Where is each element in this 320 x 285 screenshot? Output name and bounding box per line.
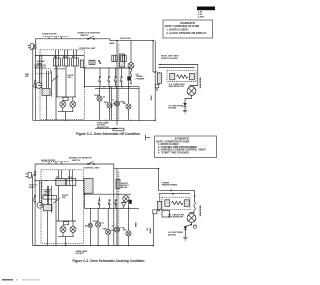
- stirrer motor SM circle: [126, 81, 131, 121]
- relay stub wires C-2: [58, 170, 72, 179]
- svg-text:FM: FM: [111, 230, 114, 232]
- turntable motor TTM circle: [114, 87, 119, 121]
- HV transformer T4 winding: [157, 202, 161, 210]
- control unit box C-2: [41, 170, 83, 244]
- svg-text:H.V.TR: H.V.TR: [150, 96, 152, 101]
- node s3: [115, 208, 116, 209]
- svg-text:FAN MOTOR: FAN MOTOR: [97, 126, 110, 129]
- connector wires C-2: [40, 186, 48, 246]
- control unit box: [40, 50, 84, 120]
- box above interlocks C-2: [63, 222, 68, 225]
- footer mark light: [22, 279, 40, 282]
- node d3: [116, 245, 117, 246]
- noise filter NF1 box: [43, 36, 70, 39]
- svg-text:SW.: SW.: [62, 197, 66, 199]
- HV capacitor element 2 C-2: [184, 200, 189, 207]
- svg-text:LAMP: LAMP: [109, 42, 115, 45]
- svg-text:OVEN: OVEN: [93, 221, 99, 223]
- outer loop left wire C-2: [32, 176, 34, 246]
- node r2: [109, 86, 110, 87]
- node at top right junction: [153, 40, 155, 42]
- svg-text:CONTROL UNIT: CONTROL UNIT: [79, 48, 96, 50]
- resistor R2 zigzag: [172, 201, 183, 205]
- svg-text:3-PRL: 3-PRL: [198, 17, 205, 19]
- diode wiring C-2: [185, 222, 191, 226]
- switch S3 diagonal: [52, 76, 58, 81]
- power transformer PT hatched: [84, 179, 93, 194]
- fan winding W1: [128, 41, 134, 85]
- svg-text:CONTROL UNIT: CONTROL UNIT: [83, 167, 100, 169]
- node r3: [115, 86, 116, 87]
- HV secondary wire upper: [159, 64, 198, 66]
- contact K4: [120, 68, 122, 87]
- control unit inner verticals: [40, 56, 52, 97]
- arrow down C-2: [194, 196, 196, 198]
- node b1: [105, 120, 106, 121]
- big box left vertical C-2: [116, 169, 118, 246]
- svg-text:NOISE FILTER: NOISE FILTER: [42, 34, 57, 36]
- T4 filament winding: [153, 210, 157, 214]
- svg-text:TTM: TTM: [120, 228, 124, 230]
- diode D2: [184, 226, 187, 237]
- node T1 bottom: [156, 89, 157, 90]
- latch switch block a: [112, 55, 118, 61]
- bus y88.4: [95, 87, 139, 89]
- HV capacitor element 1: [170, 73, 175, 79]
- vertical wire x56 C-2: [55, 199, 57, 246]
- svg-text:FORMER: FORMER: [136, 78, 145, 80]
- magnetron V1: [187, 86, 196, 96]
- magnetron V2: [187, 212, 196, 222]
- svg-text:FM: FM: [113, 104, 116, 106]
- svg-text:AND RESISTOR: AND RESISTOR: [169, 85, 185, 88]
- svg-text:AND RESISTOR: AND RESISTOR: [168, 216, 184, 219]
- svg-text:TT: TT: [112, 100, 115, 102]
- T1 lead joints: [157, 72, 159, 90]
- inner vertical C-2: [113, 169, 115, 246]
- svg-text:FAN: FAN: [104, 101, 109, 104]
- triac Q1: [122, 201, 127, 209]
- relay RY3: [72, 58, 79, 66]
- T4 winding wires down: [159, 194, 161, 202]
- left bus wire: [34, 39, 36, 121]
- vertical riser: [138, 87, 140, 121]
- junction block: [127, 76, 131, 80]
- node d4: [128, 245, 129, 246]
- node s2: [109, 208, 110, 209]
- relay drop wires C-2: [58, 186, 72, 221]
- node d1: [65, 245, 66, 246]
- relay stub wires: [56, 50, 77, 58]
- coil L1 circle: [36, 82, 42, 88]
- leader tick: [146, 135, 151, 141]
- svg-text:TT: TT: [112, 226, 115, 228]
- test point circle: [193, 225, 196, 228]
- control unit inner verticals C-2: [40, 181, 52, 213]
- svg-text:SWITCH: SWITCH: [80, 35, 89, 37]
- HV transformer T1 winding: [157, 73, 161, 83]
- node d2: [97, 245, 98, 246]
- damper motor circle C-2: [88, 208, 92, 245]
- big box left vertical wire: [116, 41, 118, 126]
- interlock wiring C-2: [56, 221, 76, 246]
- svg-text:TRANSFORMER: TRANSFORMER: [162, 184, 178, 187]
- HV secondary wire lower: [159, 67, 195, 69]
- node s5: [128, 208, 129, 209]
- footer mark mid: [16, 279, 18, 282]
- ground G2: [183, 237, 187, 240]
- wire to control unit: [35, 55, 84, 57]
- svg-text:OL: OL: [101, 223, 105, 225]
- arrow on wire: [159, 64, 161, 66]
- diode D1 wiring: [185, 95, 192, 103]
- svg-text:SCHEMATIC: SCHEMATIC: [180, 21, 195, 25]
- notes box C-2: [155, 136, 217, 158]
- svg-text:Figure C-1. Oven Schematic-Off: Figure C-1. Oven Schematic-Off Condition: [76, 132, 140, 136]
- oven lamp circle C-2: [96, 208, 101, 245]
- transformer T3 hatched: [43, 205, 52, 211]
- svg-text:MAGNETRON: MAGNETRON: [199, 78, 202, 89]
- relay RY2: [63, 58, 70, 66]
- node r4: [121, 86, 122, 87]
- fuse F2: [34, 171, 36, 175]
- svg-text:TRANS: TRANS: [148, 228, 151, 234]
- HV transformer T1 filament winding: [155, 84, 159, 88]
- wire to control unit C-2: [35, 180, 84, 182]
- node top right C-2: [158, 168, 160, 170]
- left bus switch S2: [34, 80, 36, 88]
- svg-text:RELAY: RELAY: [121, 186, 128, 189]
- vertical wire x56: [55, 56, 57, 121]
- bottom bus: [33, 119, 155, 121]
- small box below C-2: [162, 211, 170, 218]
- bottom bus C-2: [33, 245, 154, 247]
- fan motor circle C-2: [106, 208, 111, 245]
- svg-text:SOCKET: SOCKET: [75, 253, 84, 255]
- turntable motor circle C-2: [115, 208, 120, 245]
- node r5: [128, 86, 129, 87]
- magnetron winding C-2: [194, 202, 196, 212]
- relay RY1: [54, 58, 61, 66]
- small text box C-2: [43, 196, 57, 200]
- node interlock bus C-2: [65, 245, 66, 246]
- node b4: [138, 120, 139, 121]
- black model bar: [197, 7, 215, 11]
- contact K5: [98, 197, 100, 209]
- junction block C-2: [128, 200, 131, 204]
- magnetron feed C-2: [194, 190, 196, 202]
- transformer T2 primary hatched: [42, 89, 50, 96]
- svg-text:60HZ: 60HZ: [29, 187, 35, 189]
- svg-text:SW.: SW.: [68, 77, 72, 79]
- node w2: [172, 193, 174, 195]
- node interlock bus: [65, 120, 66, 121]
- oven lamp OL circle: [97, 87, 102, 121]
- svg-text:OVEN: OVEN: [94, 95, 100, 97]
- svg-text:DM: DM: [85, 226, 88, 228]
- contact K0: [98, 60, 101, 63]
- relay drop wires: [57, 66, 75, 97]
- dashed sub box: [35, 69, 50, 74]
- svg-text:H.V.: H.V.: [146, 228, 148, 231]
- node c1: [34, 180, 35, 181]
- relay bus upper: [85, 68, 132, 87]
- control winding hatched: [120, 54, 125, 67]
- svg-text:OL: OL: [103, 97, 107, 99]
- bus y86.7: [84, 86, 139, 88]
- latch block c: [89, 60, 95, 64]
- plug P2: [25, 172, 35, 178]
- coil L2 circle: [37, 202, 43, 208]
- fuse F1: [35, 44, 37, 48]
- under bus bracket: [95, 128, 118, 130]
- T4 feed wires: [158, 169, 160, 191]
- node s4: [121, 208, 122, 209]
- wire elbow C-2: [114, 164, 159, 169]
- HV capacitor element 1 C-2: [165, 200, 170, 207]
- small box above interlocks: [63, 97, 68, 100]
- svg-text:FAN M.: FAN M.: [134, 223, 137, 228]
- svg-text:POINTS SHOWN: POINTS SHOWN: [161, 58, 178, 60]
- svg-text:SW.: SW.: [25, 76, 29, 78]
- dashed vertical C-2: [118, 172, 120, 245]
- contact K1: [99, 68, 101, 87]
- monitor switch S1: [87, 36, 94, 39]
- svg-text:MAGNETRON: MAGNETRON: [198, 206, 201, 217]
- hatched block H1 C-2: [56, 179, 66, 186]
- svg-text:LATCH SW.: LATCH SW.: [120, 37, 131, 40]
- diode D1: [183, 103, 186, 110]
- contact K2: [108, 68, 110, 87]
- switch S5 diagonal: [53, 198, 59, 203]
- top wire: [35, 38, 110, 40]
- notes box C-1: [163, 20, 213, 38]
- secondary interlock circle: [70, 101, 76, 107]
- inner vertical wire: [110, 87, 112, 121]
- node on wire: [41, 55, 42, 56]
- node s1: [103, 208, 104, 209]
- latch switch block b: [121, 55, 127, 61]
- node b2: [116, 120, 117, 121]
- svg-text:(DIODE): (DIODE): [169, 108, 177, 110]
- footer mark dark: [2, 279, 13, 280]
- fan motor FM circle: [107, 87, 112, 121]
- monitor switch S4: [87, 162, 94, 165]
- node w1: [170, 190, 172, 192]
- dashed inner vertical wire: [118, 44, 120, 120]
- T4 connector: [153, 210, 159, 246]
- relay bus upper C-2: [85, 194, 132, 208]
- node T1 bus: [154, 120, 156, 122]
- node on bus: [35, 55, 36, 56]
- relay coil circle C-2: [123, 196, 129, 202]
- node b3: [130, 120, 131, 121]
- magnetron feed wire: [190, 65, 198, 86]
- outer loop left wire: [32, 48, 34, 121]
- interlock wiring: [56, 97, 76, 120]
- ground G1: [183, 110, 187, 113]
- top wire C-2: [35, 163, 114, 165]
- svg-text:(DIODE): (DIODE): [168, 234, 176, 236]
- svg-text:Figure C-2. Oven Schematic-Coo: Figure C-2. Oven Schematic-Cooking Condi…: [73, 259, 145, 263]
- HV capacitor dashed box C-2: [162, 197, 190, 209]
- svg-text:FAN: FAN: [103, 227, 108, 230]
- resistor R1 zigzag: [177, 75, 188, 79]
- noise filter NF2 box: [42, 162, 69, 164]
- HV capacitor element 2: [189, 73, 194, 79]
- junction block stub: [128, 68, 130, 76]
- contact K3: [114, 68, 116, 87]
- node T4 bottom: [153, 245, 155, 247]
- bus y208 C-2: [84, 207, 139, 209]
- transformer T1 feed wires: [153, 41, 157, 121]
- primary interlock circles: [60, 101, 66, 107]
- svg-text:4. "START" PAD TOUCHED: 4. "START" PAD TOUCHED: [158, 152, 189, 155]
- relay RY4: [67, 179, 76, 186]
- left bus wire C-2: [34, 164, 36, 246]
- interlock circle C-2 b: [70, 226, 76, 232]
- power transformer PT1 hatched: [80, 60, 83, 67]
- node r1: [103, 86, 104, 87]
- svg-text:SM: SM: [123, 230, 126, 232]
- node PT out C-2: [84, 193, 86, 195]
- node big box top: [116, 40, 118, 42]
- stirrer motor circle C-2: [126, 204, 131, 246]
- svg-text:TTM: TTM: [120, 102, 124, 104]
- node c2: [46, 180, 47, 181]
- wire elbow to right box: [110, 39, 153, 41]
- contact K6: [108, 200, 110, 209]
- interlock circles C-2: [60, 226, 66, 232]
- node PT out: [84, 67, 86, 69]
- svg-text:SWITCH: SWITCH: [72, 160, 81, 162]
- connector wire: [39, 71, 47, 120]
- left bus switch S6: [33, 195, 35, 202]
- HV secondary wires C-2: [159, 190, 195, 193]
- svg-text:2. CLOCK APPEARS ON DISPLAY: 2. CLOCK APPEARS ON DISPLAY: [166, 32, 206, 35]
- plug P1: [28, 44, 36, 50]
- node below magnetron: [190, 224, 192, 226]
- bracket box: [113, 128, 124, 131]
- HV capacitor dashed box: [167, 71, 196, 82]
- control winding hatched C-2: [116, 179, 120, 188]
- contact K7: [114, 200, 116, 209]
